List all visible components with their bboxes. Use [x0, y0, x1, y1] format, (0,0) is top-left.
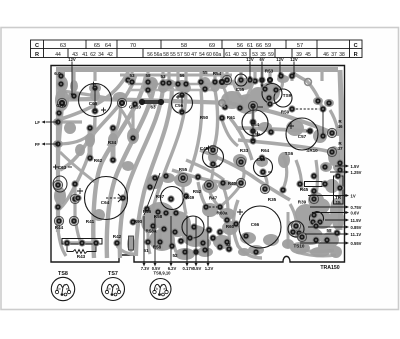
- copper blobs: [53, 75, 344, 260]
- svg-text:C56: C56: [175, 103, 184, 108]
- svg-text:C63: C63: [58, 165, 67, 170]
- mark plus C57: [288, 123, 294, 129]
- svg-text:58: 58: [145, 73, 151, 78]
- resistor R43 zigzag: [67, 244, 96, 254]
- svg-text:53: 53: [129, 73, 135, 78]
- test point 0.6V right at y=212.5: [312, 212, 346, 214]
- svg-text:R56: R56: [143, 209, 152, 214]
- diode GR9 pad: [57, 98, 66, 107]
- svg-text:61: 61: [225, 52, 231, 58]
- test point 0.55V right at y=243: [300, 242, 346, 244]
- mark minus C63: [68, 166, 72, 168]
- svg-text:R62: R62: [94, 158, 103, 163]
- svg-text:55: 55: [202, 70, 208, 75]
- test point 0.17V bottom at x=187: [186, 216, 188, 264]
- svg-text:56a: 56a: [154, 52, 163, 58]
- svg-text:R59: R59: [281, 110, 290, 115]
- svg-text:C65: C65: [89, 101, 98, 106]
- svg-text:LF: LF: [35, 120, 41, 125]
- mark plus C65: [91, 82, 96, 87]
- svg-text:R43: R43: [77, 254, 86, 259]
- svg-text:R54: R54: [213, 71, 222, 76]
- svg-text:37: 37: [331, 52, 337, 58]
- test point 11.5V right at y=220: [325, 219, 346, 221]
- svg-text:59: 59: [265, 43, 271, 49]
- svg-text:C59: C59: [257, 157, 266, 162]
- via ring pad: [305, 79, 312, 86]
- test point 1.5V right at y=166: [335, 165, 346, 167]
- svg-text:60a: 60a: [213, 52, 222, 58]
- svg-text:R41: R41: [86, 219, 95, 224]
- svg-text:50: 50: [184, 52, 190, 58]
- svg-text:12V: 12V: [290, 57, 298, 62]
- svg-text:34: 34: [98, 52, 104, 58]
- mark plus C65b: [101, 108, 106, 113]
- transistor TS4: [182, 216, 204, 238]
- svg-text:11.5V: 11.5V: [351, 218, 362, 223]
- svg-text:46: 46: [323, 52, 329, 58]
- svg-text:R45: R45: [300, 187, 309, 192]
- svg-text:69: 69: [209, 43, 215, 49]
- copper traces (gray): [56, 70, 342, 259]
- svg-text:7.3V: 7.3V: [141, 266, 150, 271]
- svg-text:53: 53: [225, 242, 231, 247]
- svg-text:b: b: [59, 287, 61, 291]
- transistor TS5: [161, 187, 184, 210]
- capacitor C59: [254, 158, 273, 177]
- svg-text:b: b: [156, 287, 158, 291]
- capacitor C66: [239, 206, 281, 248]
- svg-text:63: 63: [60, 43, 66, 49]
- test point 6.2V bottom at x=171: [170, 216, 172, 264]
- wire C54 center: [252, 106, 254, 141]
- mark minus C59: [268, 171, 272, 173]
- transformer TR15 box: [334, 176, 344, 204]
- svg-text:12V: 12V: [68, 57, 76, 62]
- svg-text:TRA150: TRA150: [320, 265, 339, 271]
- svg-text:11.1V: 11.1V: [351, 232, 362, 237]
- diode SR10 circle: [310, 212, 324, 226]
- svg-text:R60a: R60a: [217, 211, 228, 216]
- svg-text:42: 42: [107, 52, 113, 58]
- mark minus C54: [258, 106, 263, 108]
- mark plus C63: [53, 165, 58, 170]
- svg-text:e: e: [66, 287, 68, 291]
- svg-text:R55: R55: [179, 167, 188, 172]
- svg-text:R58: R58: [153, 245, 162, 250]
- svg-text:R42: R42: [113, 234, 122, 239]
- svg-text:R61: R61: [227, 115, 236, 120]
- test point 1V right at y=195.5: [308, 195, 346, 197]
- transistor TS6 circle: [274, 89, 292, 107]
- svg-text:0.5V: 0.5V: [193, 266, 202, 271]
- svg-text:GR9: GR9: [56, 103, 66, 108]
- svg-text:57: 57: [297, 43, 303, 49]
- svg-text:TS10: TS10: [294, 244, 305, 249]
- svg-text:TS7: TS7: [108, 271, 118, 277]
- mark plus C54: [255, 132, 260, 137]
- svg-text:12V: 12V: [246, 57, 254, 62]
- svg-text:e: e: [164, 287, 166, 291]
- mark minus C57: [306, 130, 311, 132]
- svg-text:41: 41: [82, 52, 88, 58]
- transistor TS9: [262, 84, 282, 104]
- svg-text:57: 57: [177, 52, 183, 58]
- svg-text:0.85V: 0.85V: [351, 225, 362, 230]
- svg-text:R64: R64: [261, 148, 270, 153]
- dashed link C64: [106, 197, 120, 199]
- svg-text:R53: R53: [265, 69, 274, 74]
- svg-text:R39: R39: [298, 200, 307, 205]
- svg-text:59: 59: [268, 52, 274, 58]
- svg-text:58: 58: [181, 43, 187, 49]
- svg-text:GR10: GR10: [129, 105, 141, 110]
- svg-text:65: 65: [94, 43, 100, 49]
- test point 0.5V bottom at x=196: [195, 216, 197, 264]
- svg-text:45: 45: [305, 52, 311, 58]
- test point 0.5V bottom at x=155: [154, 216, 156, 264]
- svg-text:C54: C54: [251, 122, 260, 127]
- svg-text:TS9: TS9: [283, 93, 292, 98]
- svg-text:e: e: [116, 287, 118, 291]
- svg-text:70: 70: [130, 43, 136, 49]
- svg-text:C49: C49: [200, 146, 209, 151]
- capacitor C63 oval: [53, 176, 67, 192]
- resistor R43 outline: [62, 239, 102, 245]
- svg-text:62: 62: [90, 52, 96, 58]
- svg-text:52: 52: [172, 253, 178, 258]
- svg-text:55: 55: [170, 52, 176, 58]
- svg-text:TS6: TS6: [285, 151, 294, 156]
- svg-text:C64: C64: [101, 200, 110, 205]
- test point 7.3V bottom at x=144: [143, 216, 145, 264]
- svg-text:R60: R60: [226, 224, 235, 229]
- svg-text:64: 64: [105, 43, 111, 49]
- svg-text:1V: 1V: [351, 193, 356, 198]
- svg-text:1.5V: 1.5V: [351, 164, 360, 169]
- svg-text:TS8,9,10: TS8,9,10: [154, 271, 172, 276]
- svg-text:46: 46: [337, 124, 343, 129]
- svg-text:R57: R57: [156, 194, 165, 199]
- reference table: [31, 40, 363, 58]
- svg-text:b: b: [109, 287, 111, 291]
- svg-text:40: 40: [233, 52, 239, 58]
- dashed link C57 top: [296, 108, 319, 110]
- mark plus C64: [77, 188, 83, 194]
- capacitor C56: [172, 93, 193, 114]
- capacitor C64: [85, 177, 128, 220]
- mark plus C56: [176, 95, 180, 99]
- svg-text:54: 54: [199, 52, 205, 58]
- svg-text:R33: R33: [240, 148, 249, 153]
- svg-text:0.75V: 0.75V: [351, 205, 362, 210]
- svg-text:66: 66: [256, 43, 262, 49]
- resistor R45 outline: [305, 182, 323, 187]
- svg-text:63: 63: [150, 105, 156, 110]
- choke S1 body: [129, 236, 134, 250]
- svg-text:R50: R50: [200, 115, 209, 120]
- svg-text:6.0: 6.0: [54, 71, 61, 76]
- test point 11.1V right at y=234: [305, 233, 346, 235]
- svg-text:37: 37: [337, 146, 343, 151]
- svg-text:R: R: [354, 52, 358, 58]
- svg-text:58: 58: [326, 228, 332, 233]
- svg-text:47: 47: [191, 52, 197, 58]
- svg-text:R47: R47: [209, 196, 218, 201]
- wire R44 lead: [322, 110, 324, 134]
- mark minus C49: [216, 165, 220, 167]
- transistor TS10: [288, 221, 304, 237]
- svg-text:6V: 6V: [259, 57, 264, 62]
- dashed link R47: [209, 206, 217, 208]
- svg-text:C: C: [35, 43, 39, 49]
- svg-text:56: 56: [147, 52, 153, 58]
- capacitor C57: [286, 118, 318, 150]
- mark arrow C64: [118, 194, 122, 202]
- svg-text:38: 38: [339, 52, 345, 58]
- svg-text:C66: C66: [251, 222, 260, 227]
- via ring pad 2: [219, 100, 225, 106]
- test point 0.85V right at y=227: [308, 226, 346, 228]
- wire 7.3V pointer: [144, 173, 160, 215]
- svg-text:1.2V: 1.2V: [205, 266, 214, 271]
- svg-text:1.25V: 1.25V: [351, 170, 362, 175]
- svg-text:60: 60: [206, 52, 212, 58]
- test point 1.25V right at y=172: [330, 171, 346, 173]
- capacitor C65: [79, 84, 112, 117]
- svg-text:R90: R90: [134, 219, 143, 224]
- solder pads: [53, 73, 343, 255]
- svg-text:56: 56: [237, 43, 243, 49]
- svg-text:TS8: TS8: [58, 271, 68, 277]
- wire C65 center: [94, 88, 96, 111]
- svg-text:FF: FF: [35, 142, 41, 147]
- PCB board outline: [51, 66, 345, 263]
- mark plus C66: [237, 209, 243, 215]
- svg-text:R49: R49: [186, 195, 195, 200]
- svg-text:58: 58: [163, 52, 169, 58]
- svg-text:R44: R44: [55, 225, 64, 230]
- svg-text:15: 15: [335, 200, 341, 205]
- capacitor C49: [203, 147, 224, 168]
- svg-text:0.55V: 0.55V: [351, 241, 362, 246]
- diode GR10 body: [144, 100, 159, 104]
- mark plus C49: [206, 146, 211, 151]
- svg-text:56: 56: [179, 73, 185, 78]
- test point 0.75V right at y=207: [310, 206, 346, 208]
- capacitor C54: [242, 110, 268, 136]
- test point 1.2V bottom at x=208: [207, 216, 209, 264]
- svg-text:R34: R34: [108, 140, 117, 145]
- svg-text:R40: R40: [228, 181, 237, 186]
- svg-text:R35: R35: [268, 197, 277, 202]
- svg-text:R52: R52: [193, 189, 202, 194]
- wire C56 center: [181, 95, 183, 112]
- svg-text:44: 44: [55, 52, 61, 58]
- svg-text:SR10: SR10: [306, 148, 318, 153]
- svg-text:C: C: [354, 43, 358, 49]
- capacitor C55: [235, 74, 247, 86]
- diode GR10 ring pad: [117, 98, 126, 107]
- svg-text:C55: C55: [236, 87, 245, 92]
- svg-text:12V: 12V: [276, 57, 284, 62]
- svg-text:61: 61: [247, 43, 253, 49]
- svg-text:53: 53: [160, 74, 166, 79]
- svg-text:R: R: [35, 52, 39, 58]
- svg-text:C57: C57: [298, 134, 307, 139]
- svg-text:0.6V: 0.6V: [351, 210, 360, 215]
